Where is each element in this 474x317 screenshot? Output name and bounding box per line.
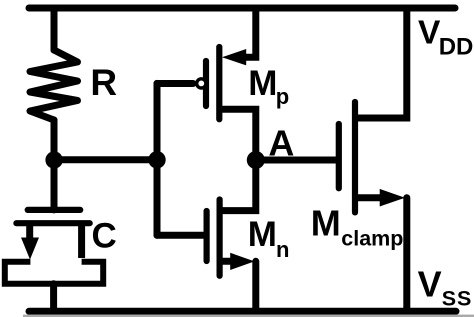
svg-text:M: M xyxy=(248,64,277,103)
svg-text:V: V xyxy=(418,14,441,51)
svg-text:SS: SS xyxy=(442,286,473,310)
svg-text:n: n xyxy=(276,237,289,262)
svg-text:A: A xyxy=(268,123,294,164)
svg-text:clamp: clamp xyxy=(341,226,403,250)
svg-text:M: M xyxy=(311,203,341,244)
svg-text:C: C xyxy=(92,217,117,256)
svg-text:M: M xyxy=(248,215,277,254)
svg-text:V: V xyxy=(418,263,442,304)
svg-text:p: p xyxy=(276,84,289,109)
svg-text:R: R xyxy=(90,62,117,103)
svg-text:DD: DD xyxy=(439,33,474,60)
